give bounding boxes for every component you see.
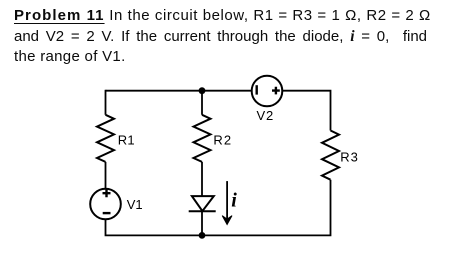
- svg-text:V1: V1: [127, 197, 143, 212]
- resistor R3: [322, 131, 339, 180]
- wire: top-left corner down to R1: [105, 90, 107, 115]
- wire: node A down to R2: [201, 91, 203, 115]
- resistor R1: [97, 115, 114, 162]
- voltage source V1: [90, 189, 121, 220]
- wire: V1 to bottom-left corner: [106, 219, 203, 235]
- resistor R2: [194, 115, 211, 162]
- diode: [189, 196, 216, 211]
- wire: R1 to V1: [105, 162, 107, 189]
- wire: top-left corner to node A: [106, 90, 203, 92]
- svg-text:V2: V2: [257, 108, 275, 123]
- svg-text:R1: R1: [118, 132, 135, 147]
- junction node A (top middle): [199, 87, 206, 94]
- wire: R2 to diode: [201, 162, 203, 196]
- current arrow i: [222, 181, 232, 224]
- svg-text:R3: R3: [340, 149, 359, 164]
- svg-text:i: i: [231, 190, 237, 212]
- wire: diode to node B: [201, 211, 203, 235]
- wire: node A to V2 left terminal: [202, 90, 252, 92]
- voltage source V2: [252, 76, 283, 107]
- junction node B (bottom middle): [199, 232, 206, 239]
- wire: R3 to bottom-right corner: [202, 180, 331, 236]
- wire: V2 right terminal to top-right corner down to R3: [282, 91, 330, 131]
- svg-text:R2: R2: [213, 132, 232, 147]
